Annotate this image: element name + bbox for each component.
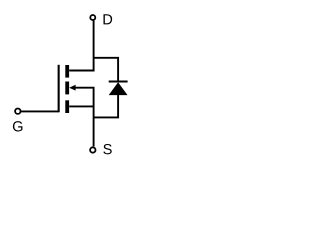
diode anode triangle xyxy=(109,82,128,95)
terminal S circle xyxy=(90,147,95,152)
transistor body channel bar xyxy=(65,82,69,95)
transistor drain channel bar xyxy=(65,65,69,78)
diode cathode bar xyxy=(109,81,128,83)
transistor source channel bar xyxy=(65,100,69,113)
wire: gate horizontal from G terminal xyxy=(21,110,59,112)
terminal G circle xyxy=(15,109,20,114)
wire: source stub from channel bar to source node xyxy=(69,105,93,107)
wire: branch from drain wire right and down to diode cathode xyxy=(94,58,119,81)
label D xyxy=(103,14,112,24)
wire: body connection line, corner down to S terminal xyxy=(75,88,94,147)
body arrowhead pointing at channel xyxy=(69,85,75,91)
wire: diode anode down, corner left to source node xyxy=(94,95,119,118)
wire: drain vertical from D circle down, corner left to MOSFET drain bar xyxy=(69,20,93,70)
label S xyxy=(103,144,111,154)
label G xyxy=(13,121,23,131)
terminal D circle xyxy=(90,15,95,20)
transistor gate line xyxy=(58,65,60,112)
